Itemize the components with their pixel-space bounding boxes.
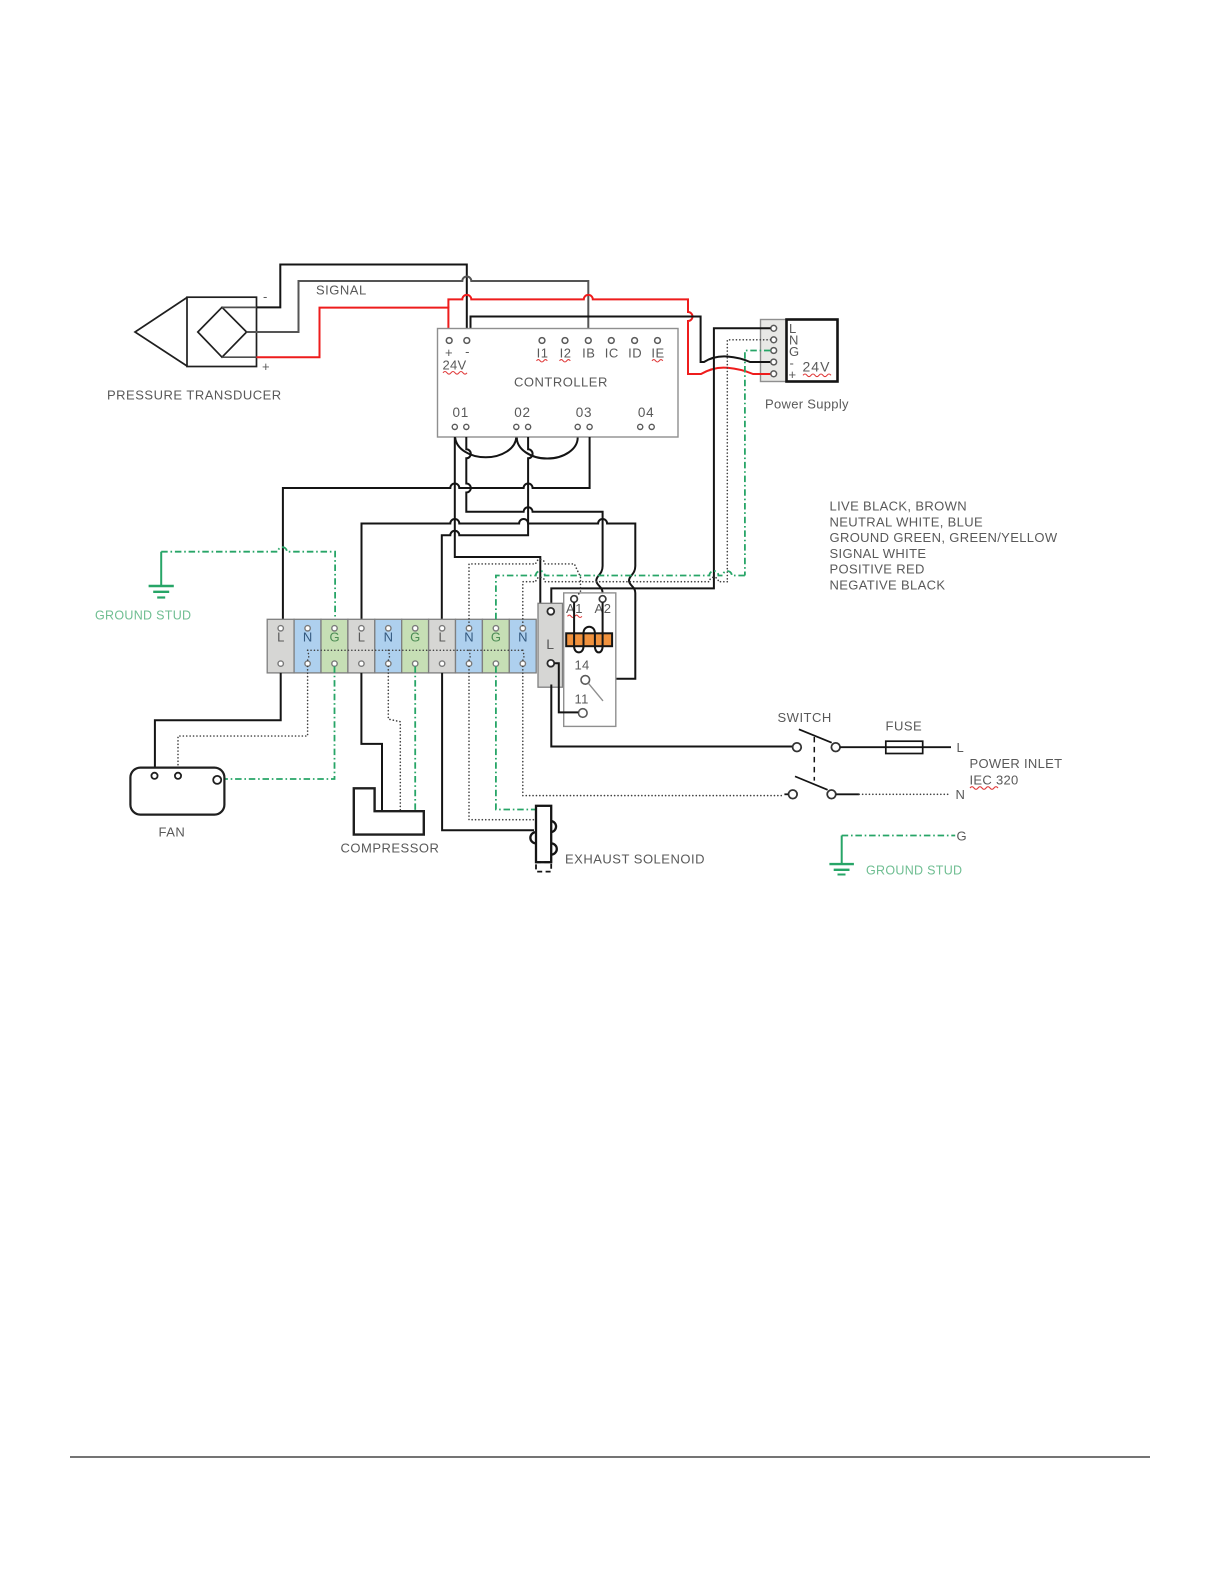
wire N stub left of switch xyxy=(784,793,788,795)
wire PS N dotted xyxy=(727,340,770,582)
svg-text:ID: ID xyxy=(628,346,642,361)
svg-text:24V: 24V xyxy=(443,358,467,373)
wire red 24V positive to power supply xyxy=(448,295,770,374)
svg-text:24V: 24V xyxy=(803,359,831,375)
dotted N3 bottom to exhaust solenoid xyxy=(469,666,536,819)
compressor M2 body xyxy=(354,788,424,834)
L feed terminal screws xyxy=(547,608,554,667)
power supply PS1 body xyxy=(787,320,838,382)
switch SW1 L pole contacts xyxy=(793,743,840,752)
dotted N2 bottom to compressor xyxy=(388,666,400,811)
wire L bottom screw to relay 11 xyxy=(554,663,578,712)
power supply pin labels L N G - + xyxy=(789,321,800,382)
svg-text:+: + xyxy=(789,367,797,382)
svg-text:G: G xyxy=(410,630,420,645)
terminal strip letters xyxy=(277,630,527,645)
wire PS G green dash-dot xyxy=(745,351,771,576)
green dash-dot G3 to power supply G xyxy=(496,571,745,619)
relay coil terminals A1 A2 xyxy=(571,596,606,603)
squiggle under IEC xyxy=(970,787,998,790)
wire 01L to L terminal block xyxy=(455,437,547,629)
svg-text:-: - xyxy=(263,289,268,304)
svg-text:G: G xyxy=(957,829,967,844)
switch N pole contacts xyxy=(789,790,836,799)
svg-text:G: G xyxy=(491,630,501,645)
controller output terminals xyxy=(452,424,654,429)
svg-text:COMPRESSOR: COMPRESSOR xyxy=(341,841,440,856)
terminal strip screws top row xyxy=(278,626,526,631)
svg-text:IE: IE xyxy=(651,346,664,361)
green dash-dot ground G line xyxy=(842,835,956,837)
dotted N1 bottom to fan xyxy=(178,666,308,767)
squiggles under I1 I2 IE xyxy=(537,360,663,362)
solenoid coil loop left xyxy=(530,832,536,843)
svg-text:IB: IB xyxy=(582,346,595,361)
controller output labels 01..04 xyxy=(452,405,654,420)
svg-text:LIVE BLACK, BROWN: LIVE BLACK, BROWN xyxy=(830,499,967,514)
wire black 24V negative to power supply xyxy=(471,317,771,363)
wire L2 to relay contact 14 xyxy=(362,519,636,679)
squiggle under A1 xyxy=(568,615,582,617)
svg-text:CONTROLLER: CONTROLLER xyxy=(514,375,608,390)
labels A1 A2 xyxy=(566,601,611,616)
svg-text:SIGNAL: SIGNAL xyxy=(316,283,367,298)
relay coil winding xyxy=(574,602,603,652)
svg-text:L: L xyxy=(438,630,445,645)
wire switch L to fuse xyxy=(840,746,886,748)
wire L feed block down to switch xyxy=(551,685,792,747)
svg-text:L: L xyxy=(358,630,365,645)
fuse F1 xyxy=(886,746,951,748)
wire L3 bottom to exhaust solenoid xyxy=(442,673,534,830)
svg-text:01: 01 xyxy=(452,405,469,420)
svg-text:I1: I1 xyxy=(537,346,549,361)
wire 02R to terminal L3 xyxy=(442,437,533,619)
dotted N3 to relay A1 xyxy=(469,559,581,625)
solenoid coil loops right xyxy=(551,821,557,855)
svg-text:+: + xyxy=(262,359,270,374)
svg-text:11: 11 xyxy=(575,692,589,707)
neutral daisy chain dotted inside strip xyxy=(308,650,525,660)
svg-text:L: L xyxy=(277,630,284,645)
exhaust solenoid SOL1 body xyxy=(536,806,551,862)
svg-text:FAN: FAN xyxy=(159,825,186,840)
wire bundle arc 01-02 xyxy=(455,438,516,458)
wire bundle arc 02-03 xyxy=(517,438,578,459)
wire transducer plus (red) xyxy=(222,356,257,358)
svg-text:04: 04 xyxy=(638,405,655,420)
svg-text:Power Supply: Power Supply xyxy=(765,397,849,412)
wire switch N to inlet dotted xyxy=(836,793,859,795)
relay contact 14 xyxy=(581,676,590,685)
terminal strip block xyxy=(267,619,536,673)
fan M1 body xyxy=(130,768,224,815)
svg-text:POSITIVE RED: POSITIVE RED xyxy=(830,562,925,577)
svg-text:GROUND STUD: GROUND STUD xyxy=(866,864,962,878)
green G1 bottom to fan xyxy=(222,666,335,779)
green G3 bottom to exhaust solenoid xyxy=(496,666,536,809)
pressure transducer PT1 xyxy=(135,297,257,366)
wire transducer minus to controller (black) xyxy=(222,265,467,329)
svg-text:FUSE: FUSE xyxy=(886,719,923,734)
svg-text:G: G xyxy=(329,630,339,645)
svg-text:L: L xyxy=(957,740,965,755)
svg-text:PRESSURE TRANSDUCER: PRESSURE TRANSDUCER xyxy=(107,388,282,403)
svg-text:SIGNAL WHITE: SIGNAL WHITE xyxy=(830,546,927,561)
switch L pole blade xyxy=(799,729,832,742)
power supply terminals xyxy=(771,325,777,376)
ground stud left symbol xyxy=(149,552,174,598)
relay K1 body xyxy=(564,593,616,727)
legend wire colour text xyxy=(830,499,1058,593)
svg-text:POWER INLET: POWER INLET xyxy=(970,756,1063,771)
wire L2 bottom to compressor xyxy=(361,673,382,811)
controller box U1 xyxy=(438,329,679,438)
relay coil bar (orange) xyxy=(566,633,612,646)
svg-text:L: L xyxy=(546,636,554,652)
fan terminals xyxy=(151,773,221,784)
green dash-dot ground stud to G1 xyxy=(161,547,335,619)
svg-text:GROUND STUD: GROUND STUD xyxy=(95,609,191,623)
relay contact 11 xyxy=(579,709,588,718)
terminal strip screws bottom row xyxy=(278,661,526,666)
page footer rule xyxy=(70,1456,1150,1458)
svg-text:14: 14 xyxy=(575,658,590,673)
dotted N4 to power supply N xyxy=(523,577,728,625)
switch N pole blade xyxy=(795,776,828,789)
switch linkage dashed xyxy=(813,737,815,781)
green G2 bottom to compressor xyxy=(414,666,416,811)
svg-text:N: N xyxy=(956,787,966,802)
svg-text:N: N xyxy=(303,630,312,645)
wire 01R to relay A2 xyxy=(466,437,602,596)
relay blade xyxy=(588,683,603,701)
controller 24V input terminals xyxy=(446,338,469,344)
wire PS L to terminal L block (black) xyxy=(551,328,770,608)
wire 03R to terminal L1 xyxy=(283,437,590,619)
svg-text:03: 03 xyxy=(576,405,593,420)
svg-text:02: 02 xyxy=(514,405,531,420)
svg-text:EXHAUST SOLENOID: EXHAUST SOLENOID xyxy=(565,852,705,867)
svg-text:IEC 320: IEC 320 xyxy=(970,773,1019,788)
dotted N4 bottom to switch N pole xyxy=(523,666,785,795)
solenoid dashed base xyxy=(536,862,551,871)
svg-text:N: N xyxy=(384,630,393,645)
svg-text:I2: I2 xyxy=(560,346,572,361)
wire L1 bottom to fan xyxy=(155,673,281,768)
controller input terminals I1..IE xyxy=(539,338,660,344)
svg-text:GROUND GREEN, GREEN/YELLOW: GROUND GREEN, GREEN/YELLOW xyxy=(830,530,1058,545)
ground stud right symbol xyxy=(829,836,854,875)
power supply PS1 terminal block xyxy=(761,320,787,382)
wire signal (gray) transducer to IB xyxy=(247,277,589,333)
squiggle under PS 24V xyxy=(803,374,831,377)
squiggle under 24V xyxy=(443,372,467,375)
svg-text:N: N xyxy=(464,630,473,645)
svg-text:NEGATIVE BLACK: NEGATIVE BLACK xyxy=(830,578,946,593)
svg-text:IC: IC xyxy=(605,346,619,361)
L feed terminal block xyxy=(538,603,563,687)
svg-text:SWITCH: SWITCH xyxy=(778,710,832,725)
svg-text:N: N xyxy=(518,630,527,645)
svg-text:NEUTRAL WHITE, BLUE: NEUTRAL WHITE, BLUE xyxy=(830,514,984,529)
